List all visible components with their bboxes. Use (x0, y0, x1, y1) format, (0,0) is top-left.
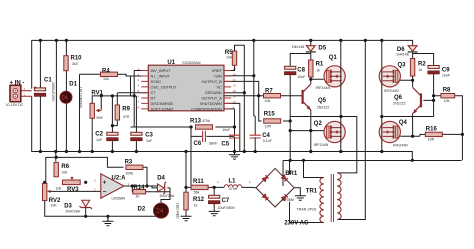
svg-text:56k: 56k (194, 190, 200, 194)
svg-text:GROUND: GROUND (205, 91, 222, 95)
svg-text:10-15V DC: 10-15V DC (6, 103, 24, 107)
svg-text:Q5: Q5 (318, 98, 327, 104)
svg-text:VREF: VREF (212, 69, 223, 73)
svg-text:14: 14 (233, 95, 237, 99)
svg-text:R11: R11 (193, 179, 204, 185)
svg-text:12: 12 (233, 89, 237, 93)
svg-text:C5: C5 (221, 141, 229, 147)
svg-text:IRFZ44N: IRFZ44N (316, 86, 331, 90)
svg-text:C9: C9 (442, 67, 450, 73)
svg-text:R2: R2 (418, 62, 426, 68)
svg-text:10uF/450V: 10uF/450V (218, 206, 236, 210)
svg-text:R12: R12 (193, 197, 205, 203)
svg-text:D1: D1 (69, 82, 77, 88)
svg-text:50K: 50K (97, 116, 104, 120)
svg-text:47R: 47R (123, 115, 130, 119)
svg-text:R3: R3 (125, 160, 133, 166)
svg-text:230V AC: 230V AC (284, 220, 309, 226)
svg-text:INV_INPUT: INV_INPUT (151, 69, 172, 73)
svg-text:TR1: TR1 (306, 188, 318, 194)
svg-text:1N4148: 1N4148 (396, 52, 409, 56)
svg-text:10uF: 10uF (297, 75, 306, 79)
svg-text:OUTPUT_B: OUTPUT_B (202, 80, 223, 84)
svg-text:10uF: 10uF (442, 74, 451, 78)
svg-text:R1: R1 (316, 62, 324, 68)
svg-text:Q6: Q6 (394, 95, 403, 101)
svg-text:100k: 100k (125, 171, 133, 175)
svg-text:10k: 10k (444, 99, 450, 103)
svg-text:IRFZ44N: IRFZ44N (384, 89, 399, 93)
svg-text:1N4148: 1N4148 (292, 45, 305, 49)
svg-text:1000uF/25V: 1000uF/25V (51, 82, 55, 102)
svg-text:SOFT-START: SOFT-START (151, 107, 175, 111)
svg-text:15: 15 (233, 73, 237, 77)
svg-text:SG3525AN: SG3525AN (182, 61, 201, 65)
svg-text:IRFZ44N: IRFZ44N (314, 143, 329, 147)
svg-text:C2: C2 (95, 131, 103, 137)
svg-text:10: 10 (233, 100, 237, 104)
svg-text:RT: RT (151, 97, 157, 101)
svg-text:R16: R16 (426, 126, 438, 132)
svg-text:OUTPUT_A: OUTPUT_A (202, 97, 223, 101)
svg-text:10k: 10k (61, 170, 67, 174)
svg-text:LM358N: LM358N (112, 197, 126, 201)
svg-text:47uH: 47uH (229, 187, 238, 191)
svg-text:TRAN-2P2S: TRAN-2P2S (297, 207, 317, 211)
svg-text:R7: R7 (265, 88, 273, 94)
svg-text:D2: D2 (138, 206, 146, 212)
svg-text:LED-RED: LED-RED (176, 203, 180, 219)
svg-text:1uF: 1uF (96, 138, 103, 142)
svg-text:L1: L1 (229, 178, 237, 184)
svg-text:R15: R15 (264, 112, 276, 118)
svg-text:10k: 10k (103, 77, 109, 81)
svg-text:D5: D5 (318, 46, 326, 52)
svg-text:Q1: Q1 (329, 55, 338, 61)
svg-text:10k: 10k (56, 187, 62, 191)
svg-text:10R: 10R (265, 125, 272, 129)
svg-text:1N4728A: 1N4728A (65, 209, 81, 213)
svg-text:IRFZ44N: IRFZ44N (393, 143, 408, 147)
svg-text:+VIN: +VIN (213, 75, 222, 79)
svg-text:1k: 1k (136, 195, 140, 199)
svg-text:Q2: Q2 (314, 121, 323, 127)
svg-text:10nF: 10nF (222, 128, 231, 132)
svg-text:R10: R10 (71, 56, 83, 62)
svg-text:RV1: RV1 (91, 91, 103, 97)
svg-text:OSC_OUTPUT: OSC_OUTPUT (151, 85, 178, 89)
svg-text:2N2222: 2N2222 (393, 101, 406, 105)
svg-text:R13: R13 (190, 119, 202, 125)
svg-text:SYNC: SYNC (151, 80, 162, 84)
svg-text:R8: R8 (443, 87, 451, 93)
svg-text:SHUTDOWN: SHUTDOWN (199, 102, 222, 106)
svg-text:D4: D4 (157, 176, 165, 182)
svg-text:CT: CT (151, 91, 157, 95)
svg-text:10K: 10K (50, 204, 57, 208)
svg-text:R6: R6 (61, 164, 69, 170)
svg-text:R14: R14 (134, 185, 146, 191)
svg-text:DISCHARGE: DISCHARGE (151, 102, 174, 106)
svg-text:N.I._INPUT: N.I._INPUT (151, 75, 171, 79)
svg-text:VC: VC (217, 85, 223, 89)
svg-text:U2:A: U2:A (112, 175, 127, 181)
svg-text:3k3: 3k3 (72, 62, 78, 66)
svg-text:68nF: 68nF (209, 141, 218, 145)
svg-text:COMPENSATION: COMPENSATION (191, 107, 222, 111)
svg-text:R4: R4 (102, 68, 110, 74)
svg-text:10R: 10R (428, 137, 435, 141)
svg-text:13: 13 (233, 83, 237, 87)
svg-text:R9: R9 (122, 106, 130, 112)
svg-text:U1: U1 (167, 60, 175, 66)
svg-text:RV3: RV3 (67, 187, 79, 193)
svg-text:10k: 10k (226, 56, 232, 60)
svg-text:10k: 10k (265, 99, 271, 103)
svg-text:BR1: BR1 (285, 171, 298, 177)
svg-text:1k: 1k (419, 68, 423, 72)
svg-text:C7: C7 (222, 198, 230, 204)
svg-text:11: 11 (233, 78, 236, 82)
svg-text:+ IN -: + IN - (10, 80, 25, 86)
svg-text:DF06M: DF06M (282, 198, 294, 202)
svg-text:2N2222: 2N2222 (317, 105, 330, 109)
svg-text:1uF: 1uF (146, 139, 153, 143)
svg-text:LED-GREEN: LED-GREEN (78, 87, 82, 108)
svg-text:1k: 1k (194, 203, 198, 207)
svg-text:C8: C8 (297, 67, 305, 73)
svg-text:1k: 1k (316, 68, 320, 72)
svg-text:Q3: Q3 (398, 63, 407, 69)
svg-text:C3: C3 (145, 132, 153, 138)
svg-text:16: 16 (233, 67, 237, 71)
svg-text:1N4728A: 1N4728A (159, 194, 175, 198)
svg-text:C6: C6 (194, 141, 202, 147)
svg-text:Q4: Q4 (399, 120, 408, 126)
svg-text:0.1uF: 0.1uF (263, 139, 273, 143)
svg-text:470k: 470k (202, 119, 210, 123)
